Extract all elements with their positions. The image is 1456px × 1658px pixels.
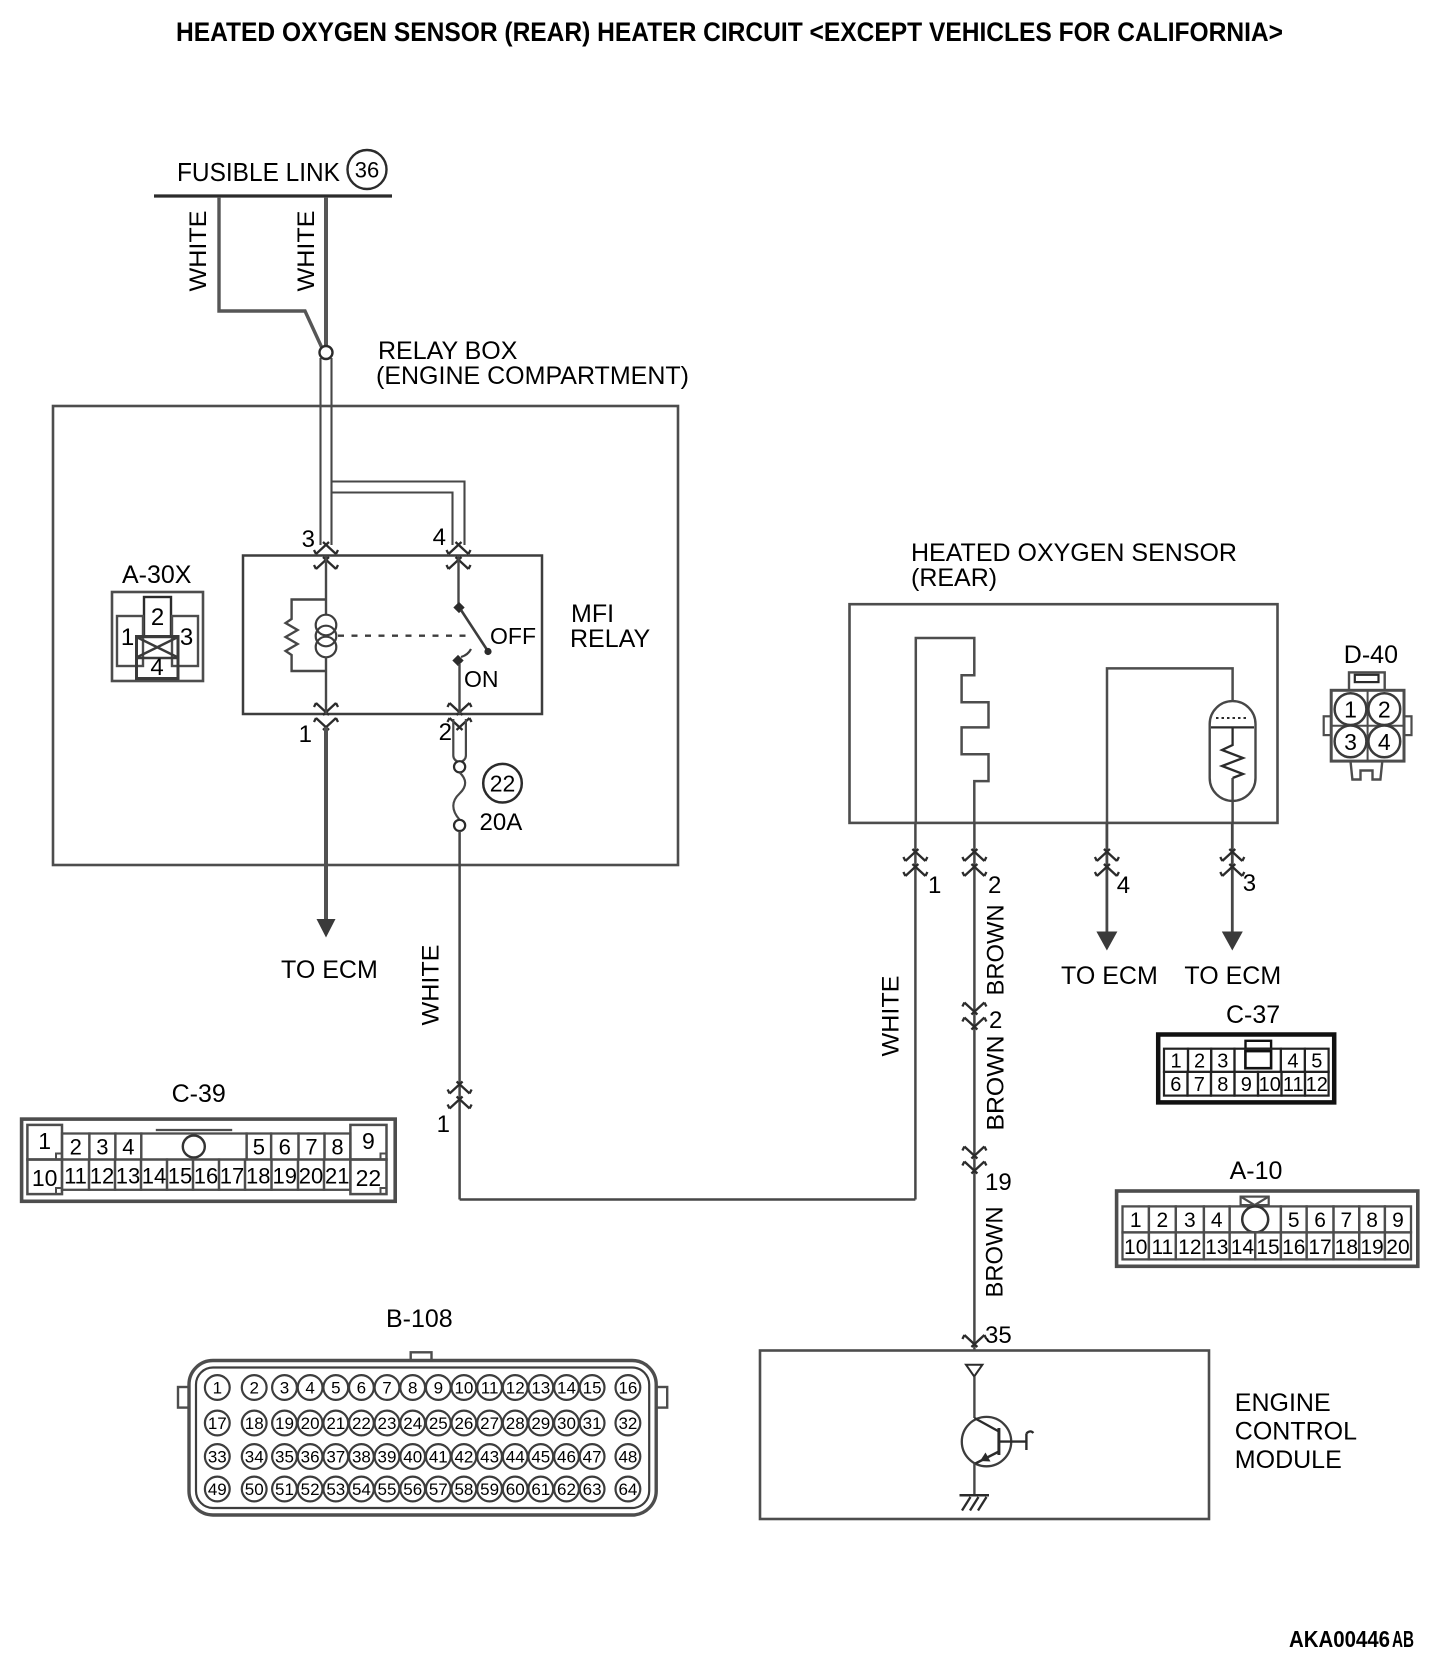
svg-text:18: 18 xyxy=(245,1414,264,1433)
svg-text:1: 1 xyxy=(928,872,941,899)
svg-text:16: 16 xyxy=(618,1379,637,1398)
svg-text:8: 8 xyxy=(408,1379,417,1398)
C-37 pin 9 xyxy=(1235,1072,1259,1096)
svg-text:6: 6 xyxy=(279,1135,291,1160)
D-40 side tabs xyxy=(1324,716,1332,735)
relay actuation dashed line xyxy=(338,635,473,637)
svg-text:56: 56 xyxy=(403,1480,422,1499)
B-108 pin 39 xyxy=(375,1444,400,1469)
svg-text:2: 2 xyxy=(249,1379,258,1398)
svg-text:2: 2 xyxy=(1194,1051,1205,1073)
B-108 pin 50 xyxy=(242,1477,267,1502)
svg-text:1: 1 xyxy=(1130,1209,1142,1232)
svg-text:23: 23 xyxy=(378,1414,397,1433)
connector C-37 pin 2 marker xyxy=(962,1003,986,1015)
B-108 pin 47 xyxy=(580,1444,605,1469)
svg-text:ENGINE: ENGINE xyxy=(1235,1389,1331,1417)
A-10 pin 7 xyxy=(1334,1206,1360,1232)
wire horizontal run to sensor xyxy=(460,1198,916,1201)
svg-text:BROWN: BROWN xyxy=(982,1207,1009,1298)
thick wire loop pin 3 to pin 4 xyxy=(332,482,465,546)
B-108 pin 52 xyxy=(298,1477,323,1502)
B-108 pin 62 xyxy=(554,1477,579,1502)
svg-text:46: 46 xyxy=(557,1448,576,1467)
svg-text:37: 37 xyxy=(326,1448,345,1467)
B-108 pin 31 xyxy=(580,1411,605,1436)
svg-text:AB: AB xyxy=(1392,1626,1414,1652)
svg-text:10: 10 xyxy=(1124,1236,1147,1259)
svg-text:11: 11 xyxy=(64,1164,87,1189)
D-40 bottom feet xyxy=(1351,761,1383,779)
heater element xyxy=(916,638,989,823)
MFI relay box xyxy=(243,556,542,715)
B-108 pin 26 xyxy=(452,1411,477,1436)
svg-text:6: 6 xyxy=(1170,1074,1181,1096)
B-108 pin 6 xyxy=(349,1375,374,1400)
C-37 pin 7 xyxy=(1188,1072,1212,1096)
B-108 pin 25 xyxy=(426,1411,451,1436)
svg-text:57: 57 xyxy=(429,1480,448,1499)
svg-text:4: 4 xyxy=(433,524,446,551)
A-10 pin 17 xyxy=(1307,1232,1334,1259)
B-108 pin 30 xyxy=(554,1411,579,1436)
B-108 pin 34 xyxy=(242,1444,267,1469)
B-108 pin 59 xyxy=(477,1477,502,1502)
A-10 pin 4 xyxy=(1204,1206,1230,1232)
svg-text:C-39: C-39 xyxy=(172,1080,226,1108)
svg-text:HEATED OXYGEN SENSOR: HEATED OXYGEN SENSOR xyxy=(911,539,1237,567)
B-108 pin 20 xyxy=(298,1411,323,1436)
svg-text:42: 42 xyxy=(454,1448,473,1467)
svg-text:21: 21 xyxy=(325,1164,349,1189)
B-108 pin 55 xyxy=(375,1477,400,1502)
svg-text:30: 30 xyxy=(557,1414,576,1433)
svg-text:3: 3 xyxy=(1243,870,1256,897)
svg-text:22: 22 xyxy=(352,1414,371,1433)
svg-text:1: 1 xyxy=(437,1111,450,1138)
thick wire junction to relay pin 3 xyxy=(319,358,321,545)
svg-text:53: 53 xyxy=(326,1480,345,1499)
B-108 pin 11 xyxy=(477,1375,502,1400)
D-40 pin 3 xyxy=(1335,726,1367,758)
B-108 top tab xyxy=(411,1352,432,1360)
C-37 pin 8 xyxy=(1211,1072,1235,1096)
transistor emitter wire xyxy=(973,1464,975,1496)
B-108 pin 23 xyxy=(375,1411,400,1436)
B-108 pin 16 xyxy=(616,1375,641,1400)
sensor pin 4 marker xyxy=(1095,849,1119,861)
svg-text:1: 1 xyxy=(1344,697,1357,723)
svg-text:59: 59 xyxy=(480,1480,499,1499)
svg-text:1: 1 xyxy=(299,721,312,748)
B-108 pin 43 xyxy=(477,1444,502,1469)
B-108 pin 14 xyxy=(554,1375,579,1400)
C-39 pin 2 xyxy=(62,1134,89,1160)
B-108 pin 41 xyxy=(426,1444,451,1469)
svg-text:1: 1 xyxy=(213,1379,222,1398)
B-108 side tabs xyxy=(178,1387,189,1408)
B-108 pin 60 xyxy=(503,1477,528,1502)
svg-text:5: 5 xyxy=(253,1135,265,1160)
connector A-30X body xyxy=(112,592,203,681)
C-39 pin 7 xyxy=(299,1134,325,1160)
connector C-37 body xyxy=(1158,1035,1334,1103)
B-108 pin 9 xyxy=(426,1375,451,1400)
svg-text:2: 2 xyxy=(1378,697,1391,723)
svg-text:5: 5 xyxy=(1288,1209,1300,1232)
svg-text:64: 64 xyxy=(618,1480,637,1499)
svg-text:12: 12 xyxy=(1178,1236,1201,1259)
svg-text:WHITE: WHITE xyxy=(293,211,320,292)
svg-text:50: 50 xyxy=(245,1480,264,1499)
svg-text:1: 1 xyxy=(121,624,134,651)
A-30X cell 2 xyxy=(144,597,171,637)
arrowhead TO ECM pin 4 xyxy=(1096,932,1117,951)
C-39 key cell xyxy=(141,1134,246,1160)
svg-text:36: 36 xyxy=(301,1448,320,1467)
svg-text:13: 13 xyxy=(116,1164,140,1189)
A-10 pin 2 xyxy=(1149,1206,1176,1232)
svg-text:3: 3 xyxy=(180,624,193,651)
svg-text:AKA00446: AKA00446 xyxy=(1289,1626,1390,1652)
connector C-39 pin 1 marker on wire xyxy=(448,1082,472,1094)
sensor element wire to pin 3 xyxy=(1231,778,1234,823)
sensor pin 1 marker xyxy=(903,849,927,861)
C-37 pin 1 xyxy=(1164,1049,1188,1072)
A-10 pin 12 xyxy=(1176,1232,1204,1259)
svg-text:RELAY BOX: RELAY BOX xyxy=(378,337,518,365)
A-30X cell 4 keyed xyxy=(137,637,179,679)
svg-text:2: 2 xyxy=(1157,1209,1169,1232)
svg-text:45: 45 xyxy=(531,1448,550,1467)
svg-text:14: 14 xyxy=(1231,1236,1255,1259)
svg-text:ON: ON xyxy=(464,666,499,692)
svg-text:TO ECM: TO ECM xyxy=(281,956,378,984)
relay coil parallel resistor branch xyxy=(286,600,326,672)
B-108 pin 58 xyxy=(452,1477,477,1502)
C-39 pin 18 xyxy=(245,1160,272,1190)
B-108 pin 53 xyxy=(323,1477,348,1502)
A-10 pin 10 xyxy=(1123,1232,1149,1259)
B-108 pin 35 xyxy=(272,1444,297,1469)
svg-text:3: 3 xyxy=(1184,1209,1196,1232)
svg-text:19: 19 xyxy=(275,1414,294,1433)
svg-text:3: 3 xyxy=(96,1135,108,1160)
connector B-108 body xyxy=(189,1361,656,1516)
svg-text:35: 35 xyxy=(275,1448,294,1467)
svg-text:11: 11 xyxy=(481,1379,499,1398)
relay switch wire to pin 2 xyxy=(458,664,460,714)
arrowhead TO ECM pin 3 xyxy=(1222,932,1243,951)
svg-text:31: 31 xyxy=(583,1414,602,1433)
svg-text:10: 10 xyxy=(454,1379,473,1398)
svg-text:27: 27 xyxy=(480,1414,499,1433)
A-10 pin 1 xyxy=(1123,1206,1149,1232)
junction node xyxy=(320,346,333,359)
sensor pin 3 marker xyxy=(1220,849,1244,861)
A-30X cell 3 xyxy=(172,616,198,666)
sensor element capsule xyxy=(1210,701,1256,801)
svg-text:44: 44 xyxy=(506,1448,525,1467)
B-108 pin 32 xyxy=(616,1411,641,1436)
svg-text:51: 51 xyxy=(275,1480,294,1499)
relay switch blade (OFF position) xyxy=(461,610,488,651)
B-108 pin 7 xyxy=(375,1375,400,1400)
C-39 pin 21 xyxy=(324,1160,350,1190)
svg-text:12: 12 xyxy=(90,1164,114,1189)
C-39 pin 12 xyxy=(89,1160,115,1190)
svg-text:5: 5 xyxy=(331,1379,340,1398)
B-108 pin 51 xyxy=(272,1477,297,1502)
B-108 pin 57 xyxy=(426,1477,451,1502)
B-108 pin 1 xyxy=(205,1375,230,1400)
sensor pin 4 wire to ECM xyxy=(1106,823,1109,932)
C-37 pin 2 xyxy=(1188,1049,1211,1072)
svg-text:40: 40 xyxy=(403,1448,422,1467)
C-39 pin 4 xyxy=(115,1134,141,1160)
svg-text:19: 19 xyxy=(1360,1236,1383,1259)
fusible link wavy wire xyxy=(453,772,465,819)
B-108 pin 3 xyxy=(272,1375,297,1400)
wire WHITE right feed xyxy=(324,197,328,347)
pin 4 marker xyxy=(447,542,471,554)
ECM pin 35 marker xyxy=(962,1335,986,1347)
svg-text:4: 4 xyxy=(305,1379,314,1398)
C-39 pin 8 xyxy=(325,1134,351,1160)
sensor pin 2 marker xyxy=(962,849,986,861)
B-108 pin 4 xyxy=(298,1375,323,1400)
svg-text:WHITE: WHITE xyxy=(878,976,905,1057)
svg-text:20: 20 xyxy=(1386,1236,1409,1259)
C-37 pin 3 xyxy=(1211,1049,1234,1072)
A-10 pin 18 xyxy=(1334,1232,1360,1259)
svg-text:63: 63 xyxy=(583,1480,602,1499)
svg-text:TO ECM: TO ECM xyxy=(1184,962,1281,990)
B-108 pin 56 xyxy=(400,1477,425,1502)
svg-text:14: 14 xyxy=(557,1379,576,1398)
B-108 pin 5 xyxy=(323,1375,348,1400)
svg-text:C-37: C-37 xyxy=(1226,1001,1280,1029)
svg-text:MODULE: MODULE xyxy=(1235,1446,1342,1474)
B-108 pin 63 xyxy=(580,1477,605,1502)
C-39 pin 22 xyxy=(350,1160,386,1195)
svg-text:1: 1 xyxy=(38,1128,51,1154)
svg-text:29: 29 xyxy=(531,1414,550,1433)
sensor pin 3 wire to ECM xyxy=(1231,823,1234,932)
svg-text:20A: 20A xyxy=(480,809,523,836)
svg-text:6: 6 xyxy=(357,1379,366,1398)
C-39 pin 20 xyxy=(298,1160,324,1190)
A-10 pin 15 xyxy=(1255,1232,1281,1259)
B-108 pin 64 xyxy=(616,1477,641,1502)
C-37 pin 6 xyxy=(1164,1072,1188,1096)
svg-text:13: 13 xyxy=(531,1379,550,1398)
B-108 pin 48 xyxy=(616,1444,641,1469)
svg-text:22: 22 xyxy=(356,1165,382,1191)
svg-text:54: 54 xyxy=(352,1480,371,1499)
svg-text:25: 25 xyxy=(429,1414,448,1433)
svg-text:4: 4 xyxy=(1117,872,1130,899)
B-108 pin 24 xyxy=(400,1411,425,1436)
C-39 pin 14 xyxy=(141,1160,167,1190)
svg-text:4: 4 xyxy=(1287,1051,1298,1073)
B-108 pin 45 xyxy=(528,1444,553,1469)
C-39 pin 10 xyxy=(27,1160,62,1195)
svg-text:11: 11 xyxy=(1283,1074,1304,1096)
svg-text:43: 43 xyxy=(480,1448,499,1467)
wire WHITE from fuse down xyxy=(458,831,461,1200)
connector D-40 top tab xyxy=(1349,672,1385,690)
wire WHITE left branch xyxy=(219,197,322,348)
svg-text:32: 32 xyxy=(618,1414,637,1433)
svg-text:55: 55 xyxy=(378,1480,397,1499)
svg-text:7: 7 xyxy=(1341,1209,1353,1232)
B-108 pin 49 xyxy=(205,1477,230,1502)
svg-text:26: 26 xyxy=(454,1414,473,1433)
svg-text:28: 28 xyxy=(506,1414,525,1433)
B-108 pin 33 xyxy=(205,1444,230,1469)
C-39 pin 3 xyxy=(89,1134,115,1160)
B-108 pin 29 xyxy=(528,1411,553,1436)
svg-text:RELAY: RELAY xyxy=(570,625,650,653)
C-39 pin 6 xyxy=(271,1134,298,1160)
relay switch pivot contact xyxy=(453,602,464,613)
C-39 pin 1 xyxy=(27,1125,62,1160)
B-108 pin 21 xyxy=(323,1411,348,1436)
sensor pin 2 wire BROWN xyxy=(973,823,976,1350)
A-10 pin 9 xyxy=(1385,1206,1411,1232)
svg-text:B-108: B-108 xyxy=(386,1305,453,1333)
C-37 key tab xyxy=(1246,1041,1272,1049)
C-37 pin 5 xyxy=(1305,1049,1329,1072)
svg-text:WHITE: WHITE xyxy=(185,211,212,292)
fusible link symbol below pin 2 xyxy=(453,719,466,762)
svg-text:9: 9 xyxy=(1392,1209,1404,1232)
svg-text:20: 20 xyxy=(299,1164,323,1189)
svg-text:20: 20 xyxy=(301,1414,320,1433)
B-108 pin 2 xyxy=(242,1375,267,1400)
C-37 pin 12 xyxy=(1305,1072,1329,1096)
B-108 pin 36 xyxy=(298,1444,323,1469)
C-39 pin 5 xyxy=(247,1134,272,1160)
svg-text:21: 21 xyxy=(326,1414,345,1433)
wire WHITE up to sensor pin 1 xyxy=(914,824,917,1200)
svg-text:36: 36 xyxy=(355,158,379,183)
svg-text:15: 15 xyxy=(168,1164,192,1189)
svg-text:HEATED OXYGEN SENSOR (REAR) HE: HEATED OXYGEN SENSOR (REAR) HEATER CIRCU… xyxy=(176,17,1283,47)
svg-text:60: 60 xyxy=(506,1480,525,1499)
svg-text:10: 10 xyxy=(32,1165,58,1191)
svg-text:7: 7 xyxy=(382,1379,391,1398)
svg-text:34: 34 xyxy=(245,1448,264,1467)
svg-text:15: 15 xyxy=(1256,1236,1279,1259)
A-10 pin 6 xyxy=(1307,1206,1334,1232)
C-39 pin 9 xyxy=(350,1125,386,1160)
svg-text:9: 9 xyxy=(434,1379,443,1398)
svg-text:19: 19 xyxy=(985,1169,1012,1196)
sensor internal resistor xyxy=(1222,727,1243,778)
svg-text:8: 8 xyxy=(1217,1074,1228,1096)
svg-text:61: 61 xyxy=(531,1480,550,1499)
svg-text:17: 17 xyxy=(220,1164,244,1189)
svg-text:39: 39 xyxy=(378,1448,397,1467)
relay coil wire to pin 1 xyxy=(325,671,327,714)
C-39 pin 15 xyxy=(167,1160,193,1190)
engine control module box xyxy=(760,1351,1209,1520)
svg-text:CONTROL: CONTROL xyxy=(1235,1418,1357,1446)
D-40 pin 4 xyxy=(1368,726,1400,758)
pin 2 marker xyxy=(448,718,472,730)
transistor base lead xyxy=(999,1440,1027,1442)
C-37 pin 11 xyxy=(1282,1072,1306,1096)
svg-text:38: 38 xyxy=(352,1448,371,1467)
ECM wire to transistor xyxy=(973,1377,975,1419)
svg-text:2: 2 xyxy=(439,719,452,746)
svg-text:24: 24 xyxy=(403,1414,422,1433)
relay coil xyxy=(325,600,327,616)
A-10 pin 16 xyxy=(1281,1232,1307,1259)
pin 3 marker xyxy=(314,542,338,554)
C-37 pin 10 xyxy=(1258,1072,1282,1096)
C-39 pin 16 xyxy=(193,1160,219,1190)
transistor in ECM xyxy=(962,1417,1011,1466)
B-108 pin 15 xyxy=(580,1375,605,1400)
svg-text:16: 16 xyxy=(194,1164,218,1189)
B-108 pin 17 xyxy=(205,1411,230,1436)
A-10 key tab xyxy=(1241,1197,1269,1206)
sensor element wire xyxy=(1107,668,1233,823)
B-108 pin 40 xyxy=(400,1444,425,1469)
fuse number circle 22 xyxy=(483,764,522,803)
svg-text:12: 12 xyxy=(506,1379,525,1398)
svg-text:19: 19 xyxy=(273,1164,297,1189)
B-108 pin 37 xyxy=(323,1444,348,1469)
svg-text:49: 49 xyxy=(208,1480,227,1499)
svg-text:14: 14 xyxy=(142,1164,166,1189)
C-39 pin 13 xyxy=(115,1160,141,1190)
svg-text:3: 3 xyxy=(1217,1051,1228,1073)
svg-text:3: 3 xyxy=(1344,729,1357,755)
svg-text:BROWN: BROWN xyxy=(983,905,1010,996)
svg-text:4: 4 xyxy=(1378,729,1391,755)
pin 1 marker xyxy=(314,718,338,730)
svg-text:52: 52 xyxy=(301,1480,320,1499)
svg-text:2: 2 xyxy=(989,1007,1002,1034)
B-108 pin 13 xyxy=(528,1375,553,1400)
A-10 pin 19 xyxy=(1359,1232,1385,1259)
svg-text:A-10: A-10 xyxy=(1230,1157,1283,1185)
wire pin 1 to ECM arrow xyxy=(324,727,328,920)
D-40 pin 2 xyxy=(1368,693,1400,725)
connector C-39 body xyxy=(22,1119,396,1201)
arrowhead TO ECM left xyxy=(317,919,336,938)
B-108 pin 27 xyxy=(477,1411,502,1436)
B-108 pin 12 xyxy=(503,1375,528,1400)
connector D-40 body xyxy=(1331,690,1404,761)
svg-text:4: 4 xyxy=(1211,1209,1223,1232)
C-39 pin 19 xyxy=(272,1160,299,1190)
relay coil wire from pin 3 xyxy=(325,556,327,600)
connector A-10 pin 19 marker xyxy=(962,1147,986,1159)
svg-text:D-40: D-40 xyxy=(1344,641,1398,669)
B-108 pin 18 xyxy=(242,1411,267,1436)
svg-text:4: 4 xyxy=(150,654,163,681)
B-108 pin 46 xyxy=(554,1444,579,1469)
svg-text:9: 9 xyxy=(362,1128,375,1154)
fusible link number circle 36 xyxy=(348,150,387,189)
C-39 key bracket xyxy=(156,1129,232,1131)
svg-text:47: 47 xyxy=(583,1448,602,1467)
